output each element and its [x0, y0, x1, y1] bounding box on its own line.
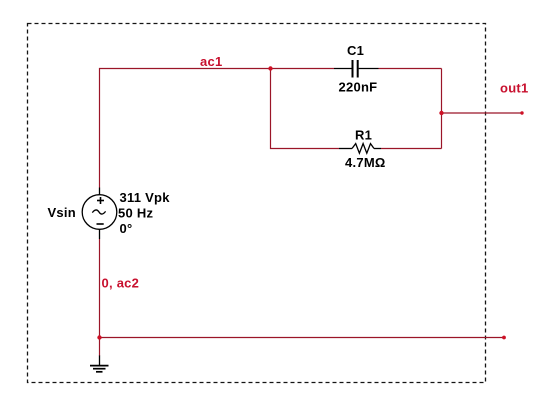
resistor R1 symbol [339, 144, 381, 154]
junction node out1 [439, 111, 443, 115]
sine tilde [92, 210, 105, 214]
svg-text:ac1: ac1 [200, 54, 222, 69]
node out1 end point [520, 111, 523, 114]
wire out1 tap [442, 112, 523, 114]
svg-text:220nF: 220nF [339, 80, 378, 95]
svg-text:out1: out1 [500, 81, 528, 96]
svg-text:0, ac2: 0, ac2 [102, 276, 140, 291]
wire Vsin bottom to ground node [99, 239, 101, 356]
minus sign [97, 223, 104, 225]
ground symbol [90, 356, 109, 372]
svg-text:0°: 0° [120, 221, 133, 236]
svg-text:311 Vpk: 311 Vpk [120, 190, 171, 205]
wire R1 right lead to right vertical [381, 148, 442, 150]
svg-text:C1: C1 [347, 43, 364, 58]
capacitor C1 symbol [334, 60, 379, 78]
top pin [99, 188, 101, 196]
source Vsin symbol [82, 188, 117, 240]
node bottom rail end point [502, 336, 506, 340]
page border (dashed frame) [28, 24, 486, 383]
plus sign [97, 200, 104, 202]
bottom pin [99, 230, 101, 240]
wire ac1 to C1 right side [379, 68, 442, 70]
svg-text:4.7MΩ: 4.7MΩ [345, 155, 386, 170]
wire net ac1 top-left vertical [100, 69, 335, 188]
svg-text:50 Hz: 50 Hz [118, 205, 153, 220]
wire right vertical of parallel loop [441, 69, 443, 149]
svg-text:Vsin: Vsin [48, 205, 76, 220]
body circle [82, 195, 117, 230]
svg-text:R1: R1 [355, 128, 372, 143]
junction node ac1 [268, 66, 272, 70]
junction node ground rail [97, 335, 101, 339]
wire bottom rail [100, 337, 505, 339]
wire left branch down to R1 [271, 69, 340, 149]
